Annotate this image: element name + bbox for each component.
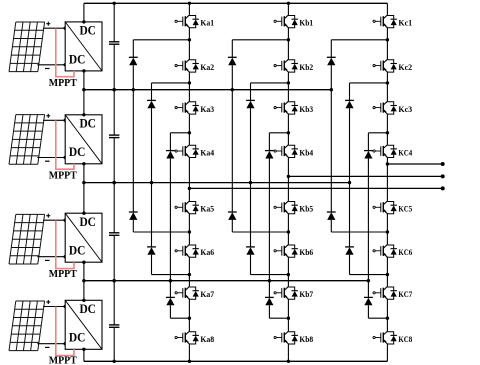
wire clamp column 3 phase c bbox=[367, 305, 369, 318]
svg-text:Ka6: Ka6 bbox=[200, 248, 214, 257]
wire bottom DC bus bbox=[84, 360, 388, 362]
wire output phase B bbox=[288, 175, 442, 177]
node J1c bbox=[386, 38, 389, 41]
svg-text:Ka3: Ka3 bbox=[200, 105, 214, 114]
PV panel PV4 bbox=[9, 301, 45, 351]
wire clamp column 1 phase a bbox=[132, 40, 134, 58]
node capacitor C4 top bbox=[113, 279, 116, 282]
label + terminal PV1 bbox=[46, 22, 50, 26]
clamp diode Da5 bbox=[147, 247, 156, 255]
node converter 2 top bbox=[82, 113, 85, 116]
wire clamp column 1 phase b bbox=[231, 40, 233, 58]
IGBT Ka2 bbox=[175, 59, 199, 72]
node PV1- at converter input bbox=[63, 63, 66, 66]
node J6a bbox=[188, 273, 191, 276]
wire clamp column 3 phase b bbox=[268, 159, 270, 298]
node converter 1 top bbox=[82, 20, 85, 23]
wire phase c leg bbox=[386, 214, 388, 245]
node PV4+ at converter input bbox=[63, 305, 66, 308]
svg-text:Kb1: Kb1 bbox=[299, 19, 313, 28]
wire phase a leg bbox=[188, 158, 190, 201]
svg-text:DC: DC bbox=[69, 144, 86, 159]
wire phase c leg bbox=[386, 3, 388, 15]
clamp diode Dc6 bbox=[364, 297, 373, 305]
svg-text:Kb8: Kb8 bbox=[299, 335, 313, 344]
svg-text:Kc3: Kc3 bbox=[398, 105, 412, 114]
IGBT Ka3 bbox=[175, 101, 199, 114]
node capacitor C3 top bbox=[113, 181, 116, 184]
node output tap B bbox=[287, 175, 290, 178]
node module bus junction V2 bbox=[82, 181, 85, 184]
node converter 4 top bbox=[82, 299, 85, 302]
node J6c bbox=[386, 273, 389, 276]
capacitor C1 bbox=[109, 3, 119, 89]
wire clamp column 3 phase a bbox=[169, 159, 171, 298]
wire phase a leg bbox=[188, 3, 190, 15]
clamp diode Db6 bbox=[265, 297, 274, 305]
clamp diode Db4 bbox=[228, 212, 237, 220]
clamp diode Db5 bbox=[246, 247, 255, 255]
svg-text:Ka7: Ka7 bbox=[200, 290, 214, 299]
wire clamp column 3 phase b bbox=[268, 305, 270, 318]
wire phase b leg bbox=[287, 28, 289, 59]
node clamp2 a on V2 bbox=[150, 181, 153, 184]
wire output phase A bbox=[189, 187, 442, 189]
wire clamp column 3 phase c bbox=[367, 133, 369, 151]
node capacitor C3 bottom bbox=[113, 279, 116, 282]
node output tap C bbox=[386, 162, 389, 165]
svg-text:MPPT: MPPT bbox=[49, 355, 77, 365]
wire PV4 negative to converter bbox=[37, 343, 65, 345]
wire junction J1c bbox=[331, 39, 387, 41]
IGBT KC5 bbox=[373, 201, 397, 214]
PV panel PV1 bbox=[9, 22, 45, 72]
wire MPPT control loop 3 bbox=[56, 220, 74, 268]
clamp diode Da2 bbox=[147, 100, 156, 108]
wire clamp column 1 phase c bbox=[330, 220, 332, 232]
IGBT Ka7 bbox=[175, 286, 199, 299]
IGBT Kc3 bbox=[373, 101, 397, 114]
wire phase b leg bbox=[287, 114, 289, 145]
svg-text:Ka4: Ka4 bbox=[200, 148, 215, 157]
svg-text:Ka2: Ka2 bbox=[200, 63, 214, 72]
wire clamp column 1 phase c bbox=[330, 65, 332, 212]
node PV2+ at converter input bbox=[63, 119, 66, 122]
wire phase c leg bbox=[386, 158, 388, 201]
node capacitor C1 bottom bbox=[113, 88, 116, 91]
svg-text:DC: DC bbox=[69, 243, 86, 258]
PV panel PV3 bbox=[9, 214, 45, 264]
clamp diode Db1 bbox=[228, 57, 237, 65]
capacitor C3 bbox=[109, 183, 119, 281]
IGBT Ka1 bbox=[175, 15, 199, 28]
label - terminal PV4 bbox=[45, 346, 50, 348]
node capacitor C4 bottom bbox=[113, 360, 116, 363]
label + terminal PV4 bbox=[46, 300, 50, 304]
svg-text:DC: DC bbox=[69, 51, 86, 66]
node output terminal B bbox=[441, 174, 445, 178]
wire clamp column 2 phase b bbox=[250, 83, 252, 101]
wire clamp column 2 phase a bbox=[151, 255, 153, 275]
clamp diode Dc4 bbox=[327, 212, 336, 220]
svg-text:Ka5: Ka5 bbox=[200, 205, 214, 214]
wire phase a leg bbox=[188, 114, 190, 145]
wire phase b leg bbox=[287, 3, 289, 15]
svg-text:KC4: KC4 bbox=[398, 148, 412, 157]
svg-text:DC: DC bbox=[79, 115, 96, 130]
wire converter 1 top output bbox=[83, 3, 85, 22]
svg-text:Ka1: Ka1 bbox=[200, 19, 214, 28]
wire clamp column 2 phase a bbox=[151, 83, 153, 101]
svg-text:Ka8: Ka8 bbox=[200, 335, 214, 344]
PV panel PV2 bbox=[9, 115, 45, 165]
wire clamp column 3 phase b bbox=[268, 133, 270, 151]
node output terminal C bbox=[441, 162, 445, 166]
DC/DC converter U1 bbox=[65, 22, 102, 71]
node J2b bbox=[287, 81, 290, 84]
wire clamp column 1 phase b bbox=[231, 65, 233, 212]
wire PV2 negative to converter bbox=[37, 157, 65, 159]
label + terminal PV2 bbox=[46, 114, 50, 118]
wire junction J1a bbox=[133, 39, 189, 41]
svg-text:KC7: KC7 bbox=[398, 290, 412, 299]
node PV4- at converter input bbox=[63, 342, 66, 345]
node clamp2 c on V2 bbox=[348, 181, 351, 184]
wire converter 2 top output bbox=[83, 90, 85, 115]
node J1b bbox=[287, 38, 290, 41]
node module bus junction V3 bbox=[82, 88, 85, 91]
IGBT KC4 bbox=[373, 145, 397, 158]
node clamp1 b on V3 bbox=[231, 88, 234, 91]
node converter 3 bottom bbox=[82, 261, 85, 264]
svg-text:MPPT: MPPT bbox=[49, 170, 77, 181]
wire output phase C bbox=[387, 163, 442, 165]
wire clamp column 2 phase a bbox=[151, 108, 153, 247]
svg-text:Kb4: Kb4 bbox=[299, 148, 314, 157]
wire PV1 positive to converter bbox=[43, 27, 65, 29]
node clamp3 a on V1 bbox=[169, 279, 172, 282]
node output tap A bbox=[188, 187, 191, 190]
wire phase a leg bbox=[188, 299, 190, 331]
svg-text:Kb6: Kb6 bbox=[299, 248, 313, 257]
wire clamp column 1 phase a bbox=[132, 65, 134, 212]
node PV1+ at converter input bbox=[63, 27, 66, 30]
wire junction J6b bbox=[251, 274, 289, 276]
wire junction J7a bbox=[170, 317, 189, 319]
svg-text:Kc1: Kc1 bbox=[398, 19, 412, 28]
wire PV1 negative to converter bbox=[37, 64, 65, 66]
wire PV3 positive to converter bbox=[43, 219, 65, 221]
node converter 3 top bbox=[82, 212, 85, 215]
IGBT Kc2 bbox=[373, 59, 397, 72]
wire clamp column 1 phase b bbox=[231, 220, 233, 232]
wire converter 3 top output bbox=[83, 183, 85, 214]
node clamp3 b on V1 bbox=[268, 279, 271, 282]
svg-text:DC: DC bbox=[79, 214, 96, 229]
wire PV3 negative to converter bbox=[37, 256, 65, 258]
node J3a bbox=[188, 131, 191, 134]
wire junction J2b bbox=[251, 82, 289, 84]
wire phase b leg bbox=[287, 344, 289, 361]
clamp diode Dc2 bbox=[345, 100, 354, 108]
wire converter 1 bottom output bbox=[83, 71, 85, 90]
label + terminal PV3 bbox=[46, 214, 50, 218]
wire phase c leg bbox=[386, 28, 388, 59]
IGBT Kb4 bbox=[274, 145, 298, 158]
node PV2- at converter input bbox=[63, 156, 66, 159]
wire phase a leg bbox=[188, 72, 190, 101]
svg-text:DC: DC bbox=[69, 330, 86, 345]
wire converter 2 bottom output bbox=[83, 164, 85, 183]
node J5b bbox=[287, 230, 290, 233]
wire phase c leg bbox=[386, 114, 388, 145]
clamp diode Dc3 bbox=[364, 151, 373, 159]
wire phase b leg bbox=[287, 214, 289, 245]
node J3b bbox=[287, 131, 290, 134]
wire clamp column 2 phase b bbox=[250, 255, 252, 275]
svg-text:Kb2: Kb2 bbox=[299, 63, 313, 72]
svg-text:KC8: KC8 bbox=[398, 335, 412, 344]
wire DC bus node V3 bbox=[84, 89, 331, 91]
wire clamp column 1 phase c bbox=[330, 40, 332, 58]
wire clamp column 1 phase a bbox=[132, 220, 134, 232]
node converter 2 bottom bbox=[82, 162, 85, 165]
wire phase b leg bbox=[287, 72, 289, 101]
wire phase a leg bbox=[188, 257, 190, 286]
label - terminal PV2 bbox=[45, 160, 50, 162]
node J7c bbox=[386, 317, 389, 320]
node clamp3 c on V1 bbox=[367, 279, 370, 282]
svg-text:Kb5: Kb5 bbox=[299, 205, 313, 214]
label - terminal PV1 bbox=[45, 68, 50, 70]
svg-text:DC: DC bbox=[79, 301, 96, 316]
wire phase c leg bbox=[386, 299, 388, 331]
wire clamp column 3 phase c bbox=[367, 159, 369, 298]
IGBT Kb1 bbox=[274, 15, 298, 28]
node phase a bottom bus bbox=[188, 360, 191, 363]
DC/DC converter U4 bbox=[65, 300, 102, 349]
IGBT Kc1 bbox=[373, 15, 397, 28]
node J5c bbox=[386, 230, 389, 233]
wire DC bus node V2 bbox=[84, 182, 350, 184]
wire junction J2c bbox=[350, 82, 388, 84]
clamp diode Da6 bbox=[166, 297, 175, 305]
clamp diode Da1 bbox=[129, 57, 138, 65]
svg-text:Kb3: Kb3 bbox=[299, 105, 313, 114]
IGBT Kb3 bbox=[274, 101, 298, 114]
wire junction J6a bbox=[152, 274, 190, 276]
wire phase b leg bbox=[287, 299, 289, 331]
node phase b top bus bbox=[287, 2, 290, 5]
capacitor C4 bbox=[109, 281, 119, 362]
label - terminal PV3 bbox=[45, 259, 50, 261]
wire phase a leg bbox=[188, 214, 190, 245]
svg-text:Kc2: Kc2 bbox=[398, 63, 412, 72]
wire junction J3c bbox=[368, 132, 387, 134]
wire PV2 positive to converter bbox=[43, 119, 65, 121]
wire phase c leg bbox=[386, 344, 388, 361]
IGBT Ka5 bbox=[175, 201, 199, 214]
wire junction J3a bbox=[170, 132, 189, 134]
node clamp1 c on V3 bbox=[330, 88, 333, 91]
wire MPPT control loop 4 bbox=[56, 307, 74, 356]
wire junction J3b bbox=[269, 132, 288, 134]
node module bus junction V1 bbox=[82, 279, 85, 282]
svg-text:MPPT: MPPT bbox=[49, 78, 77, 89]
wire clamp column 2 phase c bbox=[349, 83, 351, 101]
node J7b bbox=[287, 317, 290, 320]
node J5a bbox=[188, 230, 191, 233]
node J7a bbox=[188, 317, 191, 320]
wire junction J6c bbox=[350, 274, 388, 276]
IGBT Ka8 bbox=[175, 331, 199, 344]
wire DC bus node V1 bbox=[84, 280, 369, 282]
svg-text:Kb7: Kb7 bbox=[299, 290, 313, 299]
wire junction J5c bbox=[331, 231, 387, 233]
node output terminal A bbox=[441, 186, 445, 190]
node converter 1 bottom bbox=[82, 69, 85, 72]
node PV3+ at converter input bbox=[63, 219, 66, 222]
wire MPPT control loop 2 bbox=[56, 120, 74, 169]
IGBT Ka4 bbox=[175, 145, 199, 158]
IGBT KC7 bbox=[373, 286, 397, 299]
wire PV4 positive to converter bbox=[43, 306, 65, 308]
node converter 4 bottom bbox=[82, 348, 85, 351]
capacitor C2 bbox=[109, 90, 119, 183]
clamp diode Dc1 bbox=[327, 57, 336, 65]
node clamp1 a on V3 bbox=[132, 88, 135, 91]
DC/DC converter U3 bbox=[65, 213, 102, 262]
wire clamp column 2 phase b bbox=[250, 108, 252, 247]
wire clamp column 2 phase c bbox=[349, 108, 351, 247]
clamp diode Dc5 bbox=[345, 247, 354, 255]
wire phase b leg bbox=[287, 257, 289, 286]
clamp diode Db3 bbox=[265, 151, 274, 159]
wire junction J7b bbox=[269, 317, 288, 319]
node capacitor C2 top bbox=[113, 88, 116, 91]
node J2a bbox=[188, 81, 191, 84]
wire junction J7c bbox=[368, 317, 387, 319]
clamp diode Da4 bbox=[129, 212, 138, 220]
clamp diode Db2 bbox=[246, 100, 255, 108]
IGBT Kb2 bbox=[274, 59, 298, 72]
node capacitor C2 bottom bbox=[113, 181, 116, 184]
wire phase b leg bbox=[287, 158, 289, 201]
IGBT Kb7 bbox=[274, 286, 298, 299]
svg-text:KC6: KC6 bbox=[398, 248, 412, 257]
node J1a bbox=[188, 38, 191, 41]
wire junction J1b bbox=[232, 39, 288, 41]
wire phase a leg bbox=[188, 344, 190, 361]
node phase a top bus bbox=[188, 2, 191, 5]
wire clamp column 3 phase a bbox=[169, 305, 171, 318]
node J6b bbox=[287, 273, 290, 276]
svg-text:MPPT: MPPT bbox=[49, 269, 77, 280]
svg-text:DC: DC bbox=[79, 23, 96, 38]
wire phase c leg bbox=[386, 257, 388, 286]
node PV3- at converter input bbox=[63, 255, 66, 258]
node clamp2 b on V2 bbox=[249, 181, 252, 184]
IGBT Kb5 bbox=[274, 201, 298, 214]
wire top DC bus bbox=[84, 2, 388, 4]
wire MPPT control loop 1 bbox=[56, 28, 74, 76]
IGBT Ka6 bbox=[175, 244, 199, 257]
IGBT Kb8 bbox=[274, 331, 298, 344]
node capacitor C1 top bbox=[113, 2, 116, 5]
wire converter 4 top output bbox=[83, 281, 85, 301]
clamp diode Da3 bbox=[166, 151, 175, 159]
wire phase c leg bbox=[386, 72, 388, 101]
DC/DC converter U2 bbox=[65, 115, 102, 164]
wire phase a leg bbox=[188, 28, 190, 59]
node phase b bottom bus bbox=[287, 360, 290, 363]
node J3c bbox=[386, 131, 389, 134]
svg-text:KC5: KC5 bbox=[398, 205, 412, 214]
wire junction J5a bbox=[133, 231, 189, 233]
wire converter 4 bottom output bbox=[83, 349, 85, 361]
node J2c bbox=[386, 81, 389, 84]
IGBT Kb6 bbox=[274, 244, 298, 257]
IGBT KC8 bbox=[373, 331, 397, 344]
wire junction J2a bbox=[152, 82, 190, 84]
wire converter 3 bottom output bbox=[83, 262, 85, 281]
wire clamp column 3 phase a bbox=[169, 133, 171, 151]
wire clamp column 2 phase c bbox=[349, 255, 351, 275]
wire junction J5b bbox=[232, 231, 288, 233]
IGBT KC6 bbox=[373, 244, 397, 257]
